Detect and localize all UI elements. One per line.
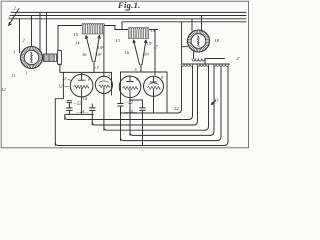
ladder wire 7 bbox=[55, 143, 224, 146]
svg-text:3: 3 bbox=[8, 16, 11, 21]
tap transformer winding line bbox=[182, 63, 230, 65]
svg-text:2: 2 bbox=[23, 38, 26, 43]
small series symbol 20 bbox=[67, 101, 71, 103]
tube 7 filament bbox=[99, 85, 110, 88]
tube 9 filament bbox=[147, 86, 160, 89]
resistor 14 winding loops bbox=[82, 24, 105, 26]
tube 6 cathode to bus bbox=[81, 97, 83, 115]
capacitor 22 right bbox=[118, 104, 123, 114]
tube 9 cathode lead bbox=[153, 89, 155, 113]
slider arrow 14a right bbox=[95, 36, 100, 62]
vacuum tube 7 envelope bbox=[95, 76, 112, 93]
motor 1 feed wire phase a bbox=[19, 19, 21, 53]
svg-text:—24—: —24— bbox=[124, 109, 137, 114]
tap winding group 1 bbox=[181, 64, 193, 66]
ladder wire 5 bbox=[130, 132, 210, 135]
tube 9 anode lead bbox=[151, 76, 157, 82]
svg-text:14: 14 bbox=[75, 41, 80, 46]
tube 8 jog to cap 24 bbox=[130, 98, 143, 100]
vacuum tube 6 envelope bbox=[70, 74, 93, 97]
svg-text:16: 16 bbox=[125, 50, 130, 55]
tap wire 5 from winding down to ladder bbox=[210, 66, 214, 135]
svg-text:17: 17 bbox=[154, 45, 159, 50]
svg-text:12: 12 bbox=[1, 87, 6, 92]
svg-text:22: 22 bbox=[174, 106, 179, 111]
drop cap 24 to ladder 3 bbox=[91, 114, 93, 125]
drop bus to ladder 2 bbox=[64, 114, 66, 119]
wire comb B left extension bbox=[115, 29, 128, 31]
tap winding group 3 bbox=[213, 64, 229, 66]
wire comb A right end step bbox=[105, 26, 123, 30]
frame left side down bbox=[55, 72, 63, 145]
svg-text:13: 13 bbox=[62, 76, 67, 81]
frame right stub bbox=[111, 72, 113, 95]
slider arrow 14a left bbox=[86, 36, 93, 62]
motor shaft coupling bar bbox=[44, 54, 57, 62]
wire bus to coupling box bbox=[45, 12, 47, 54]
capacitor 24 left bbox=[90, 104, 96, 114]
wire comb B right end bbox=[149, 29, 158, 31]
tube 8 filament bbox=[123, 86, 138, 89]
tube 6 filament bbox=[74, 85, 89, 88]
wire from flange down to tube frame bbox=[60, 64, 64, 72]
anode supply frame right pair bbox=[121, 71, 168, 73]
wire line4 down to comb B bbox=[121, 22, 123, 30]
svg-text:15: 15 bbox=[74, 32, 79, 37]
grid lead wire 5 right pair bbox=[140, 65, 142, 73]
tube 8 anode lead bbox=[127, 76, 133, 82]
wire comb A tap down to tube 7 bbox=[103, 26, 105, 77]
figure border frame bbox=[1, 1, 248, 148]
svg-text:16: 16 bbox=[82, 52, 87, 57]
motor 1 rotor winding bbox=[30, 52, 33, 62]
ladder wire 1 (cathode bus right pair) bbox=[121, 112, 178, 114]
svg-text:5: 5 bbox=[135, 67, 138, 72]
svg-text:9: 9 bbox=[161, 75, 164, 80]
cathode bus left pair bbox=[66, 113, 94, 115]
svg-text:5: 5 bbox=[97, 65, 100, 70]
resistor 15 element hatch bbox=[128, 30, 148, 39]
tap wire 1 from winding down to ladder bbox=[178, 66, 182, 113]
drop cap 24 to ladder 7 via bus bbox=[142, 113, 144, 146]
three-phase supply bus line L1 bbox=[11, 11, 246, 13]
synchronous machine 18 stator bbox=[188, 30, 210, 52]
svg-text:3: 3 bbox=[13, 50, 16, 55]
svg-text:Fig.1.: Fig.1. bbox=[117, 0, 141, 10]
frame left side down through cap bbox=[120, 72, 122, 103]
ladder wire 2 bbox=[65, 117, 189, 120]
svg-text:2: 2 bbox=[14, 6, 17, 11]
drop frame-cap to ladder 6 bbox=[120, 106, 122, 141]
tap wire 3 from winding down to ladder bbox=[194, 66, 198, 125]
svg-text:4′: 4′ bbox=[237, 56, 241, 61]
machine 18 rotor winding bbox=[197, 36, 200, 46]
exciter coil 17 under machine bbox=[193, 52, 195, 59]
tap wire 4 from winding down to ladder bbox=[205, 66, 209, 130]
tube 6 cathode lead bbox=[81, 88, 83, 97]
ladder wire 6 bbox=[121, 138, 218, 141]
slip-ring flange bbox=[58, 51, 62, 65]
capacitor 22 left bbox=[67, 104, 73, 115]
anode supply frame left pair bbox=[63, 71, 111, 73]
tube 7 cathode lead to ladder 4 bbox=[103, 88, 105, 131]
capacitor 24 right bbox=[140, 100, 146, 113]
motor 1 feed wire phase b bbox=[31, 16, 33, 47]
tap wire 6 from winding down to ladder bbox=[217, 66, 221, 141]
svg-text:10: 10 bbox=[83, 96, 88, 101]
control bus line 4 bbox=[122, 21, 246, 23]
slider arrow 15a right bbox=[142, 40, 147, 65]
ladder wire 3 bbox=[92, 122, 193, 125]
svg-text:10ᵃ: 10ᵃ bbox=[96, 52, 102, 57]
vacuum tube 9 envelope bbox=[144, 76, 164, 96]
machine 18 feed wire a bbox=[191, 19, 193, 31]
resistor 15 winding loops bbox=[128, 28, 149, 30]
wire comb B tap down to tube 9 bbox=[154, 30, 156, 76]
bus label leader arrow bbox=[9, 9, 20, 26]
slider arrow 15a left bbox=[133, 40, 139, 65]
wire coil to tap winding bbox=[204, 59, 206, 65]
induction motor 1 stator bbox=[21, 47, 43, 69]
ladder wire 4 bbox=[104, 127, 205, 130]
machine 18 feed wire b bbox=[201, 16, 203, 32]
tap winding group 2 bbox=[197, 64, 209, 66]
frame right side down hook bbox=[154, 72, 168, 113]
machine 18 feed wire c from line 4 bbox=[181, 22, 183, 64]
svg-text:14ᵃ: 14ᵃ bbox=[98, 45, 104, 50]
tap wire 7 from winding down to ladder bbox=[224, 66, 228, 146]
tap wire 2 from winding down to ladder bbox=[189, 66, 193, 120]
three-phase supply bus line L2 bbox=[10, 15, 246, 17]
wire coil 17 to label 4 bbox=[205, 58, 225, 60]
tube 7 grid arc bbox=[99, 81, 109, 83]
svg-text:16ᵃ: 16ᵃ bbox=[143, 52, 149, 57]
motor 1 feed wire phase c bbox=[39, 12, 41, 49]
three-phase supply bus line L3 bbox=[10, 18, 247, 20]
tube 8 cathode lead to ladder 5 bbox=[129, 90, 131, 136]
svg-text:18: 18 bbox=[215, 38, 220, 43]
vacuum tube 8 envelope bbox=[119, 76, 141, 98]
tube 6 anode lead bbox=[78, 72, 85, 80]
svg-text:—22: —22 bbox=[72, 101, 82, 106]
resistor 14 element hatch bbox=[82, 26, 102, 35]
svg-text:15ᵇ: 15ᵇ bbox=[147, 41, 153, 46]
wire comb A left end down to brush bbox=[58, 26, 82, 51]
tube 9 grid arc bbox=[149, 83, 159, 85]
svg-text:12: 12 bbox=[58, 84, 63, 89]
grid lead wire 5 left pair bbox=[93, 62, 95, 73]
svg-text:1: 1 bbox=[25, 71, 27, 76]
svg-text:13: 13 bbox=[116, 38, 121, 43]
svg-text:11: 11 bbox=[12, 73, 16, 78]
